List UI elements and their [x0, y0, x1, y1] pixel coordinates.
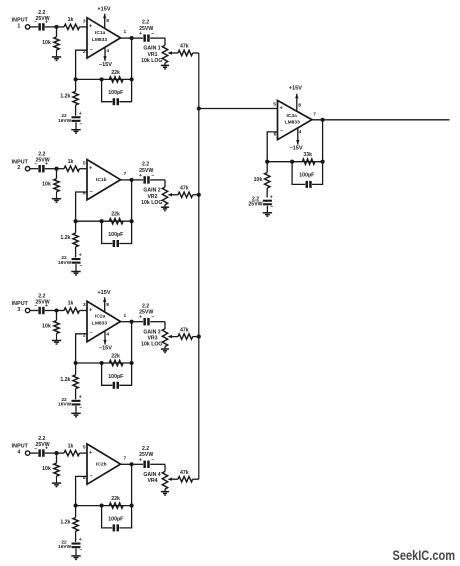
potentiometer VR2 10k LOG GAIN 2 [141, 180, 178, 207]
svg-text:+15V: +15V [289, 86, 302, 92]
node feedback right [130, 219, 134, 223]
svg-text:GAIN 3: GAIN 3 [143, 329, 160, 335]
resistor 1k series (channel 2) [57, 159, 88, 172]
svg-text:16VW: 16VW [58, 402, 72, 408]
node output junction channel 2 [130, 178, 134, 182]
svg-text:–: – [90, 473, 93, 479]
op-amp IC2a [83, 301, 127, 341]
svg-text:VR1: VR1 [147, 52, 157, 58]
wire feedback row [76, 78, 132, 80]
node feedback mid [100, 504, 104, 508]
svg-text:–: – [90, 47, 93, 53]
capacitor 2.2uF 25VW (IC3a) [248, 194, 273, 213]
wire [121, 179, 132, 181]
resistor 22k feedback (channel 2) [109, 212, 123, 224]
capacitor 22uF 16VW (channel 4) [58, 537, 82, 556]
node feedback left [74, 504, 78, 508]
node feedback left [74, 361, 78, 365]
resistor 10k input bias (channel 4) [42, 453, 59, 483]
op-amp IC1a [83, 18, 127, 58]
capacitor 2.2uF 25VW output coupling (channel 2) [134, 162, 165, 184]
ground [52, 199, 61, 203]
wire [45, 26, 57, 28]
svg-text:–: – [79, 405, 82, 411]
wire feedback row [76, 362, 132, 364]
capacitor 100pF feedback (IC3a) [292, 162, 323, 188]
node input junction channel 4 [54, 451, 58, 455]
wire [121, 321, 132, 323]
-15V supply pin 4 (IC1a) [99, 47, 112, 68]
svg-text:1k: 1k [68, 159, 74, 165]
svg-text:4: 4 [299, 129, 302, 135]
ground [161, 207, 169, 211]
svg-text:3: 3 [17, 307, 20, 313]
svg-text:VR3: VR3 [147, 336, 157, 342]
resistor 33k feedback (IC3a) [302, 152, 315, 164]
svg-text:10k: 10k [254, 177, 263, 183]
svg-text:IC1a: IC1a [95, 30, 106, 36]
svg-text:LM833: LM833 [92, 320, 108, 326]
node bus channel 2 [197, 193, 201, 197]
wire [45, 452, 57, 454]
node bus to mixer [197, 106, 201, 110]
svg-text:+: + [79, 253, 82, 259]
input terminal INPUT 4 [12, 444, 30, 456]
wire [121, 37, 132, 39]
svg-text:25VW: 25VW [139, 452, 153, 458]
ground [71, 272, 80, 276]
potentiometer VR3 10k LOG GAIN 3 [141, 322, 178, 349]
svg-text:VR4: VR4 [147, 478, 157, 484]
node input junction channel 2 [54, 167, 58, 171]
svg-text:–15V: –15V [99, 62, 112, 68]
svg-text:+: + [89, 166, 92, 172]
svg-text:7: 7 [313, 111, 316, 117]
svg-text:+: + [89, 307, 92, 313]
svg-text:+15V: +15V [97, 290, 110, 296]
wire output to feedback [131, 464, 133, 505]
svg-text:4: 4 [106, 48, 109, 54]
svg-text:8: 8 [106, 302, 109, 308]
potentiometer VR1 10k LOG GAIN 1 [141, 38, 178, 65]
wire [30, 452, 38, 454]
resistor 47k summing (channel 2) [178, 186, 199, 198]
svg-text:+: + [89, 450, 92, 456]
svg-text:1: 1 [124, 313, 127, 319]
svg-text:3: 3 [83, 302, 86, 308]
svg-text:100pF: 100pF [108, 516, 123, 522]
input terminal INPUT 2 [12, 159, 30, 171]
node feedback left IC3a [265, 160, 269, 164]
svg-text:33k: 33k [303, 152, 312, 158]
svg-text:–: – [79, 263, 82, 269]
svg-text:2.2: 2.2 [142, 20, 149, 26]
capacitor 100pF feedback (channel 4) [102, 506, 132, 532]
wire output to feedback [131, 180, 133, 221]
input terminal INPUT 3 [12, 301, 30, 313]
svg-text:4: 4 [106, 332, 109, 338]
svg-text:25VW: 25VW [139, 26, 153, 32]
resistor 22k feedback (channel 1) [109, 70, 123, 82]
svg-text:LM833: LM833 [92, 37, 108, 43]
svg-text:4: 4 [17, 450, 20, 456]
ground [52, 483, 61, 487]
svg-text:–: – [90, 331, 93, 337]
wire IC3a output [312, 119, 450, 121]
potentiometer VR4 10k LOG GAIN 4 [143, 464, 178, 491]
wire output to feedback [131, 38, 133, 79]
op-amp IC1b [83, 160, 127, 200]
capacitor 2.2uF 25VW input coupling (channel 4) [34, 436, 49, 457]
svg-text:2.2: 2.2 [142, 446, 149, 452]
resistor 1k series (channel 4) [57, 443, 88, 456]
svg-text:SeekIC.com: SeekIC.com [393, 548, 456, 563]
resistor 10k input bias (channel 2) [42, 169, 59, 199]
+15V supply pin 8 (IC3a) [289, 86, 302, 112]
wire IC3a pin 6 to feedback [267, 132, 277, 162]
capacitor 100pF feedback (channel 2) [102, 221, 132, 247]
svg-text:100pF: 100pF [108, 374, 123, 380]
svg-text:GAIN 4: GAIN 4 [143, 472, 160, 478]
resistor 10k input bias (channel 1) [42, 27, 59, 57]
svg-text:GAIN 1: GAIN 1 [143, 46, 160, 52]
wire inverting input to feedback node [76, 50, 87, 79]
svg-text:1k: 1k [68, 301, 74, 307]
node output junction channel 4 [130, 462, 134, 466]
svg-text:10k LOG: 10k LOG [141, 200, 162, 206]
wire bus to IC3a pin 5 [199, 108, 278, 110]
+15V supply pin 8 (IC2a) [97, 290, 110, 312]
capacitor 100pF feedback (channel 1) [102, 79, 132, 105]
svg-text:–: – [90, 189, 93, 195]
svg-text:2.2: 2.2 [142, 303, 149, 309]
resistor 22k feedback (channel 3) [109, 353, 123, 365]
svg-text:5: 5 [273, 101, 276, 107]
resistor 47k summing (channel 1) [178, 44, 199, 56]
capacitor 22uF 16VW (channel 3) [58, 394, 82, 413]
svg-text:25VW: 25VW [248, 202, 262, 208]
-15V supply pin 4 (IC2a) [99, 331, 112, 352]
resistor 1k series (channel 1) [57, 17, 88, 30]
node output junction channel 3 [130, 320, 134, 324]
wire [45, 310, 57, 312]
svg-text:–: – [270, 204, 273, 210]
node output junction channel 1 [130, 36, 134, 40]
capacitor 2.2uF 25VW input coupling (channel 1) [34, 10, 49, 31]
resistor 1k series (channel 3) [57, 301, 88, 314]
svg-text:47k: 47k [180, 470, 189, 476]
capacitor 2.2uF 25VW output coupling (channel 1) [134, 20, 165, 42]
ground [161, 492, 169, 496]
svg-text:10k: 10k [42, 466, 51, 472]
svg-text:VR2: VR2 [147, 194, 157, 200]
svg-text:LM833: LM833 [285, 120, 301, 126]
svg-text:8: 8 [106, 18, 109, 24]
svg-text:100pF: 100pF [299, 172, 314, 178]
svg-text:IC1b: IC1b [96, 177, 107, 183]
capacitor 2.2uF 25VW output coupling (channel 3) [134, 303, 165, 325]
svg-text:10k: 10k [42, 40, 51, 46]
svg-text:GAIN 2: GAIN 2 [143, 188, 160, 194]
resistor 1.2k gain set (channel 1) [60, 79, 78, 115]
svg-text:100pF: 100pF [108, 232, 123, 238]
svg-text:22k: 22k [111, 353, 120, 359]
wire inverting input to feedback node [76, 334, 87, 363]
node feedback mid IC3a [290, 160, 294, 164]
node feedback right IC3a [321, 160, 325, 164]
svg-text:16VW: 16VW [58, 260, 72, 266]
svg-text:10k: 10k [42, 324, 51, 330]
capacitor 2.2uF 25VW input coupling (channel 3) [34, 293, 49, 314]
svg-text:10k: 10k [42, 182, 51, 188]
wire feedback row [76, 505, 132, 507]
wire feedback row [76, 220, 132, 222]
svg-text:22k: 22k [111, 212, 120, 218]
svg-text:6: 6 [274, 132, 277, 138]
node input junction channel 1 [54, 25, 58, 29]
svg-text:25VW: 25VW [36, 299, 50, 305]
wire [30, 168, 38, 170]
svg-text:–: – [79, 121, 82, 127]
svg-text:5: 5 [83, 445, 86, 451]
svg-text:1: 1 [17, 23, 20, 29]
svg-text:100pF: 100pF [108, 90, 123, 96]
svg-text:7: 7 [124, 455, 127, 461]
svg-text:+: + [79, 111, 82, 117]
node feedback right [130, 77, 134, 81]
op-amp IC2b [83, 444, 127, 484]
svg-text:5: 5 [83, 160, 86, 166]
svg-text:25VW: 25VW [139, 310, 153, 316]
svg-text:IC2b: IC2b [96, 462, 107, 468]
ground [71, 413, 80, 417]
wire summing bus [198, 53, 200, 479]
svg-text:3: 3 [83, 19, 86, 25]
svg-text:47k: 47k [180, 186, 189, 192]
wire feedback row IC3a [267, 161, 322, 163]
wire [30, 310, 38, 312]
svg-text:2.2: 2.2 [142, 162, 149, 168]
wire [30, 26, 38, 28]
svg-text:10k LOG: 10k LOG [141, 58, 162, 64]
node feedback right [130, 361, 134, 365]
svg-text:10k LOG: 10k LOG [141, 342, 162, 348]
svg-text:7: 7 [124, 171, 127, 177]
svg-text:1k: 1k [68, 17, 74, 23]
resistor 22k feedback (channel 4) [109, 496, 123, 508]
ground [71, 130, 80, 134]
node feedback left [74, 219, 78, 223]
wire output to feedback (IC3a) [322, 120, 324, 162]
node feedback mid [100, 361, 104, 365]
wire inverting input to feedback node [76, 192, 87, 221]
resistor 10k input bias (channel 3) [42, 311, 59, 341]
svg-text:1k: 1k [68, 443, 74, 449]
svg-text:1.2k: 1.2k [60, 93, 70, 99]
svg-text:+15V: +15V [97, 6, 110, 12]
wire inverting input to feedback node [76, 476, 87, 505]
svg-text:–15V: –15V [99, 346, 112, 352]
svg-text:16VW: 16VW [58, 544, 72, 550]
input terminal INPUT 1 [12, 18, 30, 30]
resistor 10k gain set (IC3a) [254, 162, 270, 198]
svg-text:25VW: 25VW [139, 168, 153, 174]
-15V supply pin 4 (IC3a) [290, 128, 303, 151]
svg-text:25VW: 25VW [36, 158, 50, 164]
svg-text:25VW: 25VW [36, 16, 50, 22]
node bus channel 3 [197, 335, 201, 339]
svg-text:–: – [280, 129, 283, 135]
ground [263, 213, 272, 217]
node feedback mid [100, 77, 104, 81]
ground [161, 349, 169, 353]
ground [52, 341, 61, 345]
svg-text:+: + [79, 394, 82, 400]
svg-text:1.2k: 1.2k [60, 235, 70, 241]
ground [71, 556, 80, 560]
wire [121, 463, 132, 465]
node feedback mid [100, 219, 104, 223]
svg-text:1: 1 [124, 29, 127, 35]
svg-text:1.2k: 1.2k [60, 520, 70, 526]
svg-text:–: – [79, 548, 82, 554]
svg-text:+: + [270, 194, 273, 200]
capacitor 2.2uF 25VW output coupling (channel 4) [134, 446, 165, 468]
op-amp U5 IC3a mixer [273, 100, 316, 139]
svg-text:22k: 22k [111, 70, 120, 76]
wire [45, 168, 57, 170]
svg-text:16VW: 16VW [58, 118, 72, 124]
svg-text:1.2k: 1.2k [60, 377, 70, 383]
capacitor 100pF feedback (channel 3) [102, 363, 132, 389]
svg-text:+: + [79, 537, 82, 543]
svg-text:2: 2 [17, 165, 20, 171]
capacitor 2.2uF 25VW input coupling (channel 2) [34, 152, 49, 173]
svg-text:+: + [89, 24, 92, 30]
node input junction channel 3 [54, 308, 58, 312]
svg-text:IC2a: IC2a [95, 314, 106, 320]
svg-text:8: 8 [298, 102, 301, 108]
capacitor 22uF 16VW (channel 1) [58, 111, 82, 130]
svg-text:47k: 47k [180, 44, 189, 50]
wire output to feedback [131, 322, 133, 363]
node IC3a output [321, 118, 325, 122]
resistor 47k summing (channel 3) [178, 327, 199, 339]
svg-text:22k: 22k [111, 496, 120, 502]
resistor 1.2k gain set (channel 3) [60, 363, 78, 399]
svg-text:47k: 47k [180, 327, 189, 333]
resistor 1.2k gain set (channel 2) [60, 221, 78, 257]
svg-text:–15V: –15V [290, 145, 303, 151]
node feedback left [74, 77, 78, 81]
+15V supply pin 8 (IC1a) [97, 6, 110, 28]
resistor 1.2k gain set (channel 4) [60, 506, 78, 542]
resistor 47k summing (channel 4) [178, 470, 199, 482]
svg-text:+: + [280, 105, 283, 111]
ground [52, 57, 61, 61]
svg-text:25VW: 25VW [36, 442, 50, 448]
capacitor 22uF 16VW (channel 2) [58, 253, 82, 272]
ground [161, 65, 169, 69]
node feedback right [130, 504, 134, 508]
svg-text:IC3a: IC3a [287, 113, 298, 119]
